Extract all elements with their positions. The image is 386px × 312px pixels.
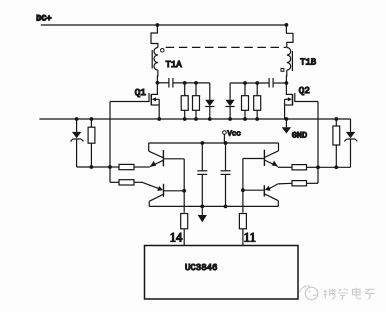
wire C2 to T1B bottom [273, 82, 286, 84]
transformer T1B winding arcs [287, 48, 291, 71]
transformer T1A core line [151, 50, 153, 69]
node R4 top [255, 81, 259, 85]
wire driver top line [149, 142, 279, 144]
wire left gate drive vertical [109, 102, 111, 183]
wire right gate drive vertical [317, 102, 319, 184]
node T1A top junction [156, 23, 160, 27]
wire zener/R5 bottoms to gate node [77, 166, 110, 168]
node left bases [182, 189, 186, 193]
wire bend to row2 resistor [110, 181, 119, 183]
resistor R9 (right row1) [278, 165, 318, 170]
wire DC+ top rail [41, 24, 287, 26]
resistor R5 [88, 119, 95, 167]
node zener VZ1 top [75, 117, 79, 121]
mosfet Q1 [149, 83, 159, 119]
wire bend to row2 right end [307, 182, 319, 184]
node Q2 source / GND [285, 117, 289, 121]
svg-text:11: 11 [244, 231, 256, 245]
transformer T1B core line [291, 51, 293, 71]
node right gate / row1 [316, 165, 320, 169]
node R5 top [90, 117, 94, 121]
resistor R7 (left row1) [110, 164, 150, 169]
wire mid right segment [230, 82, 269, 84]
node C4 bottom [224, 205, 228, 209]
wire T1A bottom stub [156, 70, 159, 83]
node R3 bottom [243, 117, 247, 121]
node R1 bottom [183, 117, 187, 121]
node D2 bottom [228, 117, 232, 121]
resistor R8 (left row2) [119, 180, 143, 185]
watermark text 畅学电子 [324, 288, 376, 300]
node R1 top [183, 81, 187, 85]
wire right base vertical to pin 11 [242, 159, 244, 213]
ground GND (top right) [282, 119, 291, 134]
capacitor C3 (left bypass) [197, 143, 207, 206]
dashed core coupling line between T1A and T1B [166, 46, 287, 48]
wire Q2 gate [295, 101, 318, 103]
transformer T1A polarity dot [161, 49, 165, 53]
watermark logo [300, 285, 318, 300]
transformer T1B primary jog wire [286, 25, 293, 48]
wire Q1 gate [110, 101, 149, 103]
capacitor C2 (right series) [269, 78, 273, 88]
node R3 top [243, 81, 247, 85]
node Q1 source [157, 117, 161, 121]
svg-text:Q2: Q2 [299, 85, 311, 96]
node C3 bottom [200, 205, 204, 209]
resistor R3 [242, 83, 249, 119]
capacitor C4 (right bypass) [221, 143, 231, 206]
node T1B bottom junction [285, 81, 289, 85]
resistor R10 (right row2) [278, 181, 307, 186]
node R6 bottom [334, 165, 338, 169]
svg-text:GND: GND [292, 130, 307, 140]
transformer T1B polarity square marker [281, 68, 284, 71]
resistor R1 [181, 83, 188, 119]
svg-text:UC3846: UC3846 [185, 263, 217, 273]
zener VZ2 [344, 119, 357, 167]
zener VZ1 [71, 119, 84, 167]
resistor R4 [254, 83, 261, 119]
transformer T1A primary jog wire [151, 25, 158, 48]
node right bases [241, 188, 245, 192]
capacitor C1 (left series) [169, 78, 173, 88]
resistor R6 [333, 119, 340, 167]
ground arrow (driver common) [198, 206, 207, 222]
wire driver bottom line [149, 205, 278, 207]
svg-text:DC+: DC+ [36, 14, 51, 24]
node T1B top junction [285, 23, 289, 27]
resistor R12 (pin 11) [239, 214, 246, 246]
node T1A bottom junction [156, 81, 160, 85]
node R6 top [334, 117, 338, 121]
transistor Q3 (left upper) [149, 143, 185, 167]
diode D1 [205, 83, 214, 119]
terminal Vcc [223, 131, 227, 143]
transistor Q4 (left lower) [143, 183, 184, 207]
svg-text:Vcc: Vcc [227, 131, 241, 139]
node left gate / row1 [108, 165, 112, 169]
diode D2 [226, 83, 235, 119]
node R2 top [194, 81, 198, 85]
node D1 bottom [208, 117, 212, 121]
mosfet Q2 [285, 83, 295, 119]
node R2 bottom [194, 117, 198, 121]
svg-text:Q1: Q1 [135, 87, 147, 98]
svg-text:T1B: T1B [300, 58, 317, 68]
svg-text:T1A: T1A [166, 60, 183, 70]
svg-text:14: 14 [170, 231, 183, 245]
node R4 bottom [255, 117, 259, 121]
wire T1B bottom stub [285, 70, 287, 83]
node R5 bottom [90, 165, 94, 169]
resistor R2 [193, 83, 200, 119]
wire main source rail [39, 118, 350, 120]
wire zener VZ2 bottom to gate node [318, 166, 351, 168]
transformer T1A winding arcs [154, 48, 158, 71]
transistor Q5 (right upper) [243, 143, 279, 166]
wire left base vertical to pin 14 [183, 159, 185, 213]
transistor Q6 (right lower) [243, 184, 278, 207]
resistor R11 (pin 14) [181, 214, 188, 246]
node C4 top / Vcc [224, 141, 228, 145]
wire mid left segment [157, 82, 169, 84]
IC U1 UC3846 box [145, 246, 299, 300]
node C3 top [200, 141, 204, 145]
wire mid left to snubbers [173, 82, 210, 84]
